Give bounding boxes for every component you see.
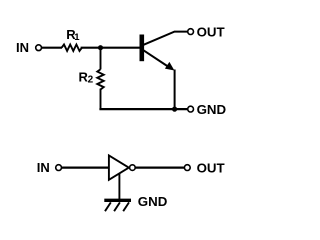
svg-text:OUT: OUT xyxy=(197,160,225,175)
svg-text:1: 1 xyxy=(74,32,80,43)
svg-text:GND: GND xyxy=(138,194,168,209)
svg-text:IN: IN xyxy=(16,40,29,55)
svg-text:2: 2 xyxy=(88,74,94,85)
svg-text:OUT: OUT xyxy=(197,24,225,39)
svg-text:GND: GND xyxy=(197,102,227,117)
svg-text:IN: IN xyxy=(37,160,50,175)
